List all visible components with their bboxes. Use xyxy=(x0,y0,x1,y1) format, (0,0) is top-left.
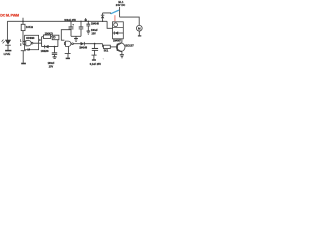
diode D1 1N4148 xyxy=(45,45,49,49)
svg-text:10KΩ: 10KΩ xyxy=(26,25,34,29)
wire mid rail xyxy=(71,35,81,37)
svg-text:1: 1 xyxy=(20,40,22,43)
LED D5 xyxy=(2,40,11,46)
svg-text:25V: 25V xyxy=(92,32,97,35)
node terminal pad on rail xyxy=(85,18,87,21)
transistor Q1 BD137 xyxy=(116,39,125,55)
svg-text:CD4093: CD4093 xyxy=(26,37,35,40)
node RL1 24V DC label xyxy=(116,0,125,7)
op-amp gate 1 NAND xyxy=(26,41,33,46)
switch S1 xyxy=(111,10,119,14)
wire VCC rail xyxy=(7,20,107,22)
node junction rail/stub xyxy=(22,21,24,23)
wire gate1 output xyxy=(33,37,42,47)
wire R1 to gate inputs xyxy=(23,31,25,45)
svg-text:1N4148: 1N4148 xyxy=(41,50,50,53)
svg-text:v: v xyxy=(103,59,105,61)
svg-text:DC M. PWM: DC M. PWM xyxy=(0,13,19,17)
relay K1 box xyxy=(113,22,124,39)
wire cap1 to gate2 inputs xyxy=(61,30,71,45)
wire IC ground pin 7 xyxy=(21,51,26,63)
svg-text:BD137: BD137 xyxy=(125,43,134,47)
node PWM input label xyxy=(0,13,19,17)
capacitor C1 electrolytic xyxy=(69,21,75,36)
capacitor C4 xyxy=(92,44,99,60)
wire rail to relay box xyxy=(107,21,112,28)
node junction rail C5 xyxy=(88,21,89,22)
ground gate2 xyxy=(66,57,70,59)
resistor R3 base xyxy=(103,45,117,48)
potentiometer P1 xyxy=(52,35,59,40)
capacitor C2 xyxy=(79,21,84,36)
wire LED branch xyxy=(6,21,8,40)
svg-text:100KΩ: 100KΩ xyxy=(45,32,53,36)
motor M1 xyxy=(136,25,142,31)
resistor R2 100K xyxy=(42,35,53,38)
node C5 label xyxy=(91,29,98,35)
wire coil pink link xyxy=(114,15,116,21)
node junction rail D3 xyxy=(102,21,103,22)
diode D4 1N4007 xyxy=(113,31,124,34)
wire PWM stub xyxy=(22,18,24,22)
wire pot to diode row xyxy=(57,40,59,47)
svg-text:2: 2 xyxy=(20,43,22,46)
wire switch left lead xyxy=(103,13,111,14)
ground mid rail xyxy=(74,36,78,41)
ground C3 xyxy=(53,57,57,59)
node junction C4 xyxy=(94,43,96,45)
svg-text:LIVE: LIVE xyxy=(4,52,11,56)
svg-text:M: M xyxy=(138,26,141,30)
wire to motor xyxy=(120,17,140,25)
node junction rail cap1 xyxy=(70,21,71,22)
wire D2 to base resistor xyxy=(84,44,103,47)
svg-text:3: 3 xyxy=(39,39,41,42)
ground LED xyxy=(5,50,11,52)
wire relay feed xyxy=(119,7,121,17)
node junction C3 xyxy=(54,46,56,48)
capacitor C3 xyxy=(52,47,57,57)
svg-text:+: + xyxy=(72,24,74,27)
wire gate2 ground leg xyxy=(65,46,71,58)
op-amp U1A CD4093 box xyxy=(25,35,39,49)
ground IC xyxy=(21,63,26,65)
svg-text:1N4007: 1N4007 xyxy=(113,40,122,43)
ground Q1 emitter xyxy=(120,55,124,58)
wire LED cathode to ground xyxy=(7,45,9,50)
svg-text:0,1uF 25V: 0,1uF 25V xyxy=(90,63,102,66)
ground C5 xyxy=(87,31,91,34)
resistor R1 10K xyxy=(21,21,25,30)
node junction rail cap2 xyxy=(80,21,81,22)
capacitor C5 xyxy=(86,21,90,31)
wire motor terminal xyxy=(138,31,141,36)
ground C4 xyxy=(92,59,96,61)
diode D3 1N4148 supply xyxy=(101,13,104,21)
wire diode row xyxy=(42,46,58,48)
svg-text:24V DC: 24V DC xyxy=(116,3,125,7)
svg-text:25V: 25V xyxy=(49,65,54,68)
svg-text:1N4148: 1N4148 xyxy=(91,23,100,26)
node C3 label xyxy=(48,62,55,68)
op-amp gate 2 NAND xyxy=(66,41,74,46)
wire gate2 output xyxy=(73,43,80,45)
svg-text:1N4148: 1N4148 xyxy=(79,47,88,50)
diode D2 1N4148 xyxy=(81,42,85,46)
svg-text:5K1: 5K1 xyxy=(104,49,109,52)
